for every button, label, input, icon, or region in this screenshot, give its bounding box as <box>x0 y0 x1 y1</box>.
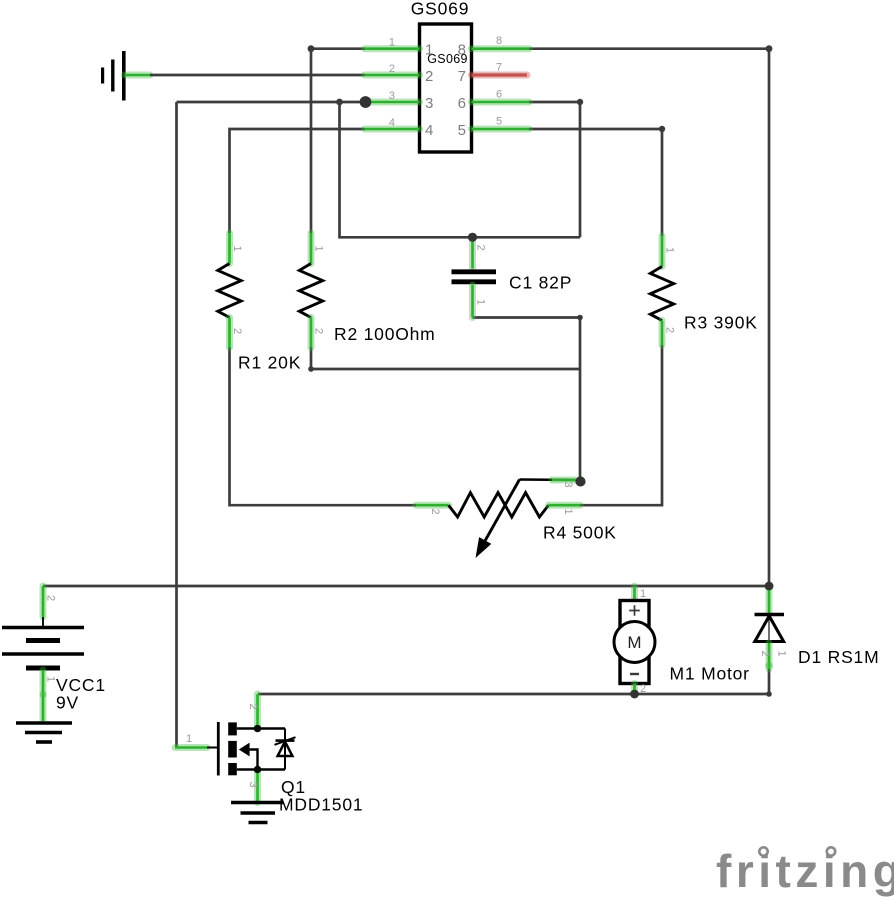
svg-text:R3 390K: R3 390K <box>684 313 758 333</box>
svg-text:2: 2 <box>425 68 433 85</box>
node: motor minus junction (top layer) <box>630 690 638 698</box>
svg-text:9V: 9V <box>56 693 79 713</box>
svg-text:1: 1 <box>231 246 243 252</box>
wire: pin1 to R2 top (horizontal) <box>311 47 365 50</box>
pin 4 stub <box>365 126 420 133</box>
svg-text:fritzing: fritzing <box>716 845 894 897</box>
svg-text:R1 20K: R1 20K <box>238 352 301 372</box>
battery VCC1 <box>2 586 84 721</box>
wire: bottom rail Q1 drain to motor to D1 <box>258 669 769 694</box>
node: pin8 corner dot <box>766 45 773 52</box>
wire: long left vertical to Q1 gate <box>175 102 178 747</box>
svg-text:GS069: GS069 <box>411 0 469 19</box>
pin 8 stub <box>472 45 530 52</box>
svg-text:1: 1 <box>664 247 676 253</box>
wire: pin3 net horizontal to left rail <box>177 101 366 104</box>
ground GND (input, top-left) <box>103 51 124 101</box>
svg-text:1: 1 <box>45 676 57 682</box>
wire: pin5 right and down to R3 top <box>529 129 662 236</box>
svg-text:C1 82P: C1 82P <box>509 273 572 293</box>
svg-text:D1 RS1M: D1 RS1M <box>798 647 879 667</box>
resistor R3 <box>650 236 675 345</box>
svg-text:1: 1 <box>313 246 325 252</box>
resistor R2 <box>299 233 324 348</box>
node: pin6 corner dot <box>577 99 583 105</box>
capacitor C1 <box>452 237 497 317</box>
svg-text:7: 7 <box>458 68 466 85</box>
svg-text:M1 Motor: M1 Motor <box>670 664 750 684</box>
wire: top power rail (battery to diode) <box>43 585 769 588</box>
svg-text:1: 1 <box>776 651 788 657</box>
svg-text:M: M <box>627 633 641 652</box>
svg-text:5: 5 <box>458 122 466 139</box>
node: C1 top junction (top layer) <box>468 233 477 242</box>
svg-text:7: 7 <box>496 61 502 73</box>
svg-text:1: 1 <box>562 509 574 515</box>
node: pin3 big junction <box>360 96 372 108</box>
ground GND pin stub (green) <box>125 72 151 79</box>
ground under Q1 <box>231 803 284 823</box>
resistor R1 <box>218 233 243 348</box>
svg-text:2: 2 <box>389 63 395 75</box>
svg-text:6: 6 <box>458 95 466 112</box>
svg-text:2: 2 <box>475 245 487 251</box>
pin 2 stub <box>365 72 420 79</box>
node: pin1 bendpoint dot <box>308 45 315 52</box>
svg-text:R4 500K: R4 500K <box>543 523 617 543</box>
svg-text:1: 1 <box>475 299 487 305</box>
node: rail / D1 junction <box>765 582 774 591</box>
op-amp U1 GS069 body <box>420 24 472 152</box>
wire: pin4 to R1 top <box>230 129 365 233</box>
svg-text:4: 4 <box>389 117 395 129</box>
svg-text:2: 2 <box>640 683 646 695</box>
svg-text:2: 2 <box>231 328 243 334</box>
svg-text:1: 1 <box>389 37 395 49</box>
svg-text:4: 4 <box>425 122 433 139</box>
node: pin3 junction (top layer) <box>360 96 372 108</box>
node: motor minus junction <box>630 690 639 699</box>
svg-text:1: 1 <box>640 588 646 600</box>
svg-text:8: 8 <box>458 42 466 59</box>
node: R4 wiper junction (top layer) <box>576 477 586 487</box>
svg-text:MDD1501: MDD1501 <box>279 795 363 815</box>
svg-text:5: 5 <box>496 115 502 127</box>
transistor Q1 (n-MOSFET) <box>175 694 296 803</box>
svg-text:3: 3 <box>389 90 395 102</box>
diode D1 <box>755 588 788 669</box>
node: C1 bottom corner dot <box>577 315 583 321</box>
pin 7 stub (unconnected, red) <box>472 72 528 79</box>
svg-text:2: 2 <box>759 651 771 657</box>
wire: pin8 right and down right rail <box>529 49 769 586</box>
node: R2 bottom corner dot <box>308 366 314 372</box>
motor M1 <box>614 586 655 695</box>
svg-text:2: 2 <box>664 327 676 333</box>
svg-text:3: 3 <box>562 482 574 488</box>
wire: R3 bottom down and left to R4 pin1 <box>580 345 662 505</box>
pin 1 stub <box>365 45 420 52</box>
wire: ground to IC pin2 <box>150 74 365 77</box>
node: C1 top junction <box>468 233 477 242</box>
svg-text:1: 1 <box>425 42 433 59</box>
wire: R2 bottom right to mid vertical <box>311 347 580 369</box>
wire: pin3 branch down and right to C1 top <box>340 102 581 237</box>
svg-text:1: 1 <box>186 733 192 745</box>
svg-text:2: 2 <box>429 509 441 515</box>
node: D1 bottom corner dot <box>766 691 772 697</box>
wire: C1 bottom right and down to R4 wiper junction <box>473 318 581 482</box>
node: R4 wiper junction <box>576 477 586 487</box>
wire: pin1 junction down to R2 top <box>310 49 313 233</box>
node: Q1 source junction (top layer) <box>254 766 261 773</box>
svg-text:6: 6 <box>496 88 502 100</box>
svg-text:3: 3 <box>425 95 433 112</box>
svg-text:2: 2 <box>45 595 57 601</box>
wire: pin6 right and down to C1-top net <box>529 102 580 237</box>
svg-text:3: 3 <box>247 782 259 788</box>
svg-text:8: 8 <box>496 35 502 47</box>
pin 3 stub <box>365 99 420 106</box>
node: Q1 drain junction (top layer) <box>254 725 261 732</box>
node: pin5 corner dot <box>659 126 665 132</box>
svg-text:2: 2 <box>247 704 259 710</box>
pin 5 stub <box>472 126 530 133</box>
ground under battery <box>16 723 72 742</box>
node: rail-D1 junction (top layer) <box>765 582 774 591</box>
node: pin3 branch bendpoint <box>336 99 343 106</box>
pin 6 stub <box>472 99 530 106</box>
svg-text:2: 2 <box>313 328 325 334</box>
wire: R1 bottom to R4 pin2 <box>230 347 417 505</box>
potentiometer R4 <box>416 480 580 559</box>
svg-text:R2 100Ohm: R2 100Ohm <box>334 324 436 344</box>
